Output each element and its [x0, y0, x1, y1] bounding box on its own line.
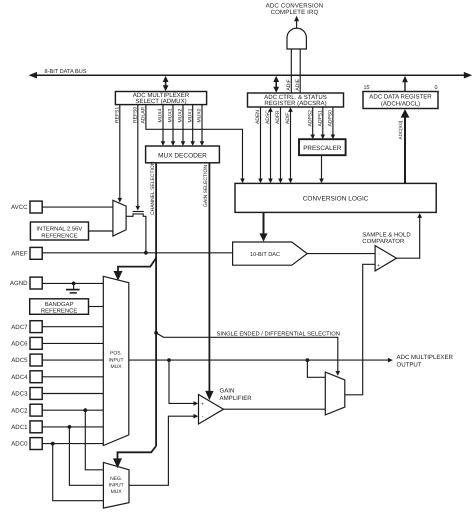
svg-text:ADSC: ADSC	[265, 110, 271, 124]
svg-text:GAIN SELECTION: GAIN SELECTION	[203, 165, 209, 207]
svg-text:ADC MULTIPLEXER: ADC MULTIPLEXER	[397, 354, 454, 361]
svg-text:ADIF: ADIF	[285, 113, 291, 124]
svg-text:-: -	[202, 414, 204, 420]
svg-text:SELECT (ADMUX): SELECT (ADMUX)	[135, 98, 186, 105]
svg-text:REFS1: REFS1	[115, 107, 121, 123]
svg-text:AREF: AREF	[11, 250, 28, 257]
svg-text:ADPS1: ADPS1	[318, 110, 324, 127]
svg-text:ADC7: ADC7	[11, 324, 28, 331]
svg-text:NEG.: NEG.	[110, 476, 122, 482]
svg-text:INTERNAL 2.56V: INTERNAL 2.56V	[36, 225, 82, 232]
svg-text:ADC5: ADC5	[11, 357, 28, 364]
svg-text:+: +	[201, 402, 204, 408]
svg-text:MUX: MUX	[110, 364, 122, 370]
svg-text:REFS0: REFS0	[133, 107, 139, 123]
svg-text:+: +	[377, 263, 380, 269]
svg-text:AVCC: AVCC	[11, 204, 28, 211]
svg-text:ADPS0: ADPS0	[328, 110, 334, 127]
svg-text:COMPARATOR: COMPARATOR	[362, 238, 405, 245]
svg-text:ADEN: ADEN	[255, 110, 261, 124]
svg-text:ADLAR: ADLAR	[141, 106, 147, 123]
svg-text:REFERENCE: REFERENCE	[41, 232, 77, 239]
svg-text:CHANNEL SELECTION: CHANNEL SELECTION	[150, 161, 156, 215]
svg-text:SINGLE ENDED / DIFFERENTIAL SE: SINGLE ENDED / DIFFERENTIAL SELECTION	[217, 330, 340, 337]
svg-text:ADFR: ADFR	[275, 110, 281, 124]
svg-text:GAIN: GAIN	[220, 388, 235, 395]
svg-text:0: 0	[435, 85, 438, 91]
svg-text:ADC DATA REGISTER: ADC DATA REGISTER	[369, 94, 432, 101]
svg-text:ADIE: ADIE	[295, 78, 301, 90]
svg-text:ADC1: ADC1	[11, 424, 28, 431]
svg-text:CONVERSION LOGIC: CONVERSION LOGIC	[303, 196, 369, 203]
svg-text:ADC6: ADC6	[11, 341, 28, 348]
svg-text:ADC3: ADC3	[11, 391, 28, 398]
svg-text:ADC4: ADC4	[11, 374, 28, 381]
svg-text:REGISTER (ADCSRA): REGISTER (ADCSRA)	[264, 100, 326, 107]
svg-text:COMPLETE IRQ: COMPLETE IRQ	[271, 9, 319, 16]
svg-text:AGND: AGND	[10, 280, 28, 287]
svg-text:MUX1: MUX1	[187, 108, 193, 122]
svg-text:ADC[9:0]: ADC[9:0]	[398, 121, 403, 140]
svg-text:MUX3: MUX3	[168, 108, 174, 122]
svg-text:MUX: MUX	[111, 489, 123, 495]
svg-text:-: -	[378, 251, 380, 257]
svg-text:8-BIT DATA BUS: 8-BIT DATA BUS	[45, 69, 87, 75]
svg-text:ADIF: ADIF	[286, 79, 292, 90]
svg-text:SAMPLE & HOLD: SAMPLE & HOLD	[362, 231, 411, 238]
svg-text:POS.: POS.	[110, 351, 122, 357]
svg-text:ADC2: ADC2	[11, 407, 28, 414]
svg-text:15: 15	[364, 85, 370, 91]
svg-text:BANDGAP: BANDGAP	[45, 301, 74, 308]
svg-text:PRESCALER: PRESCALER	[303, 145, 342, 152]
svg-text:INPUT: INPUT	[109, 357, 124, 363]
svg-text:MUX2: MUX2	[178, 108, 184, 122]
svg-text:ADPS2: ADPS2	[307, 110, 313, 127]
svg-text:10-BIT DAC: 10-BIT DAC	[250, 252, 280, 258]
svg-text:MUX4: MUX4	[158, 108, 164, 122]
svg-text:INPUT: INPUT	[109, 483, 124, 489]
svg-text:AMPLIFIER: AMPLIFIER	[220, 395, 253, 402]
svg-text:REFERENCE: REFERENCE	[41, 307, 77, 314]
svg-text:(ADCH/ADCL): (ADCH/ADCL)	[381, 101, 420, 108]
svg-text:MUX DECODER: MUX DECODER	[158, 153, 207, 160]
svg-text:OUTPUT: OUTPUT	[397, 361, 422, 368]
svg-text:MUX0: MUX0	[197, 108, 203, 122]
svg-text:ADC0: ADC0	[11, 441, 28, 448]
